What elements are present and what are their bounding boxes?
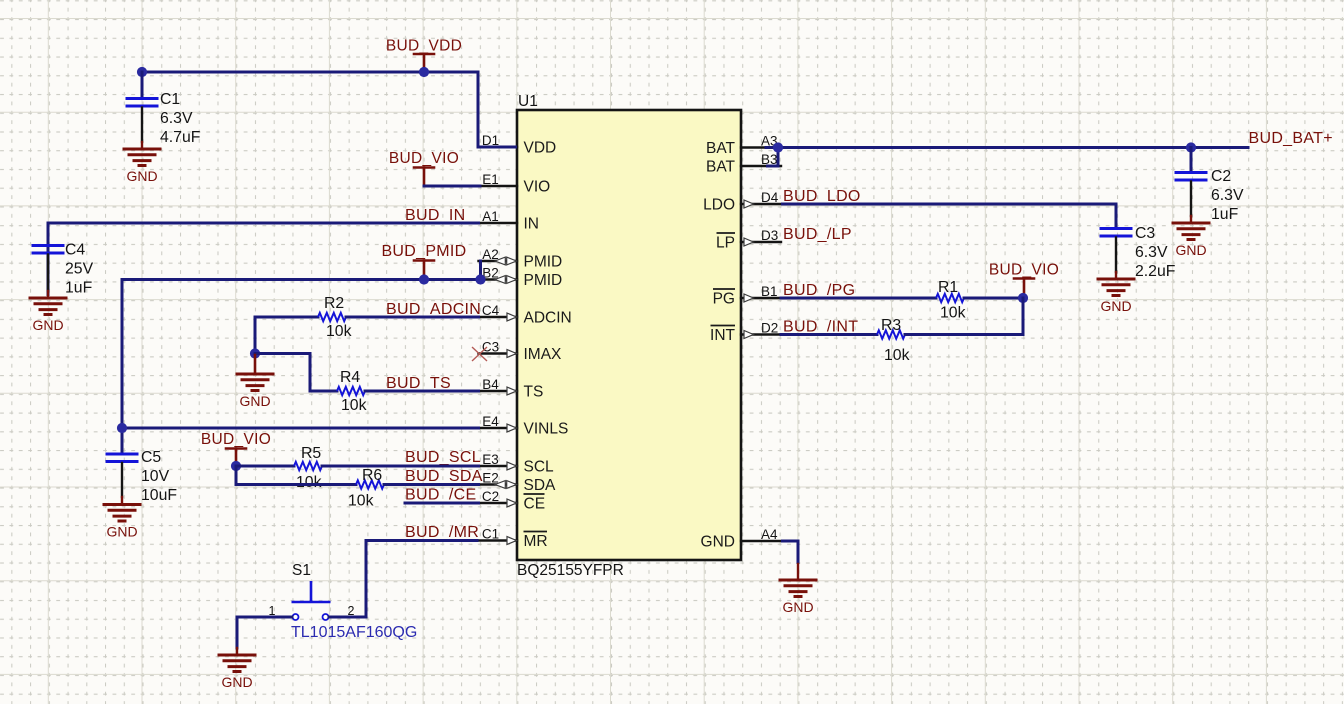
svg-text:E3: E3 bbox=[482, 452, 499, 467]
svg-text:GND: GND bbox=[126, 168, 157, 184]
wire ADCIN left bbox=[255, 316, 318, 319]
pin SCL E3 stub bbox=[479, 465, 518, 467]
pin name PMID bbox=[524, 254, 563, 271]
capacitor C5 labels bbox=[141, 449, 177, 504]
pin name ADCIN bbox=[524, 310, 572, 327]
wire GND pin to ground bbox=[781, 541, 798, 564]
wire SDA right bbox=[384, 483, 479, 486]
capacitor C1 bbox=[127, 99, 157, 107]
junction BUD_VDD bbox=[419, 67, 429, 77]
wire BUD_VIO mid stem bbox=[235, 449, 238, 466]
svg-text:BQ25155YFPR: BQ25155YFPR bbox=[517, 562, 624, 579]
svg-text:TL1015AF160QG: TL1015AF160QG bbox=[291, 624, 417, 641]
svg-text:10k: 10k bbox=[348, 493, 374, 510]
resistor R1 labels bbox=[938, 279, 966, 322]
input pin arrow at y=391 bbox=[507, 387, 517, 395]
junction BUD_VIO/R5 bbox=[231, 461, 241, 471]
pin name PMID bbox=[524, 272, 563, 289]
pin name TS bbox=[524, 384, 544, 401]
wire BAT B3 jog bbox=[766, 148, 778, 167]
pin PMID B2 stub bbox=[479, 278, 518, 280]
pin name VINLS bbox=[524, 421, 569, 438]
svg-text:R6: R6 bbox=[362, 467, 382, 484]
pin LP D3 stub bbox=[741, 241, 781, 243]
svg-text:IMAX: IMAX bbox=[524, 346, 563, 363]
wire down to INT bbox=[1022, 298, 1025, 335]
pin TS B4 stub bbox=[479, 390, 518, 392]
wire BUD_VIO right stem bbox=[1023, 279, 1026, 297]
wire down to SDA bbox=[235, 466, 238, 485]
svg-text:C2: C2 bbox=[482, 489, 499, 504]
svg-text:C4: C4 bbox=[65, 242, 85, 259]
capacitor C4 labels bbox=[65, 242, 94, 297]
svg-text:4.7uF: 4.7uF bbox=[160, 129, 201, 146]
pin VIO E1 stub bbox=[479, 185, 518, 187]
svg-text:R3: R3 bbox=[881, 317, 901, 334]
svg-text:VIO: VIO bbox=[524, 179, 551, 196]
bidirectional pin arrow at y=279.5 bbox=[495, 276, 517, 284]
pin name IMAX bbox=[524, 346, 563, 363]
svg-text:CE: CE bbox=[524, 496, 546, 513]
svg-text:U1: U1 bbox=[518, 93, 538, 110]
resistor R6 labels bbox=[348, 467, 382, 510]
resistor R2 labels bbox=[324, 295, 352, 340]
wire S1 to ground bbox=[236, 617, 239, 648]
svg-text:BUD_VIO: BUD_VIO bbox=[389, 150, 459, 167]
svg-text:PMID: PMID bbox=[524, 272, 563, 289]
wire ADCIN corner down bbox=[254, 317, 257, 354]
svg-text:BUD_VIO: BUD_VIO bbox=[989, 262, 1059, 279]
svg-text:C3: C3 bbox=[1135, 225, 1155, 242]
svg-text:SDA: SDA bbox=[524, 477, 557, 494]
pin VDD D1 stub bbox=[479, 146, 518, 148]
svg-text:R2: R2 bbox=[324, 295, 344, 312]
ground below C3 bbox=[1098, 279, 1134, 314]
svg-text:GND: GND bbox=[32, 317, 63, 333]
pin name GND bbox=[701, 534, 735, 551]
wire TS left bbox=[310, 390, 337, 393]
svg-text:ADCIN: ADCIN bbox=[524, 310, 572, 327]
resistor R5 bbox=[294, 462, 322, 470]
no-connect X on IMAX bbox=[472, 347, 487, 361]
capacitor C5 bbox=[107, 454, 137, 462]
wire PG left bbox=[781, 297, 936, 300]
input pin arrow at y=428 bbox=[507, 424, 517, 432]
svg-text:10V: 10V bbox=[141, 468, 170, 485]
pin PG B1 stub bbox=[741, 297, 781, 299]
svg-text:C3: C3 bbox=[482, 340, 499, 355]
svg-text:GND: GND bbox=[782, 599, 813, 615]
svg-text:6.3V: 6.3V bbox=[1211, 187, 1244, 204]
pin BAT A3 stub bbox=[741, 146, 781, 148]
power port BUD_VIO right bbox=[989, 262, 1059, 279]
junction R2/R4/GND bbox=[250, 348, 260, 358]
junction R1/BUD_VIO bbox=[1018, 293, 1028, 303]
wire SCL left bbox=[236, 465, 294, 468]
capacitor C1 labels bbox=[160, 91, 201, 146]
svg-text:S1: S1 bbox=[292, 562, 311, 579]
pin ADCIN C4 stub bbox=[479, 316, 518, 318]
resistor R3 labels bbox=[881, 317, 910, 364]
wire across to R4 branch bbox=[255, 352, 310, 355]
svg-text:6.3V: 6.3V bbox=[160, 110, 193, 127]
svg-text:6.3V: 6.3V bbox=[1135, 244, 1168, 261]
svg-text:E4: E4 bbox=[482, 414, 499, 429]
wire VIO net bbox=[424, 185, 480, 188]
svg-text:BAT: BAT bbox=[706, 159, 736, 176]
ground below C2 bbox=[1173, 223, 1209, 258]
svg-text:GND: GND bbox=[1100, 298, 1131, 314]
bidirectional pin arrow at y=261 bbox=[495, 257, 517, 265]
junction PMID A2/B2 bbox=[475, 274, 485, 284]
pin name BAT bbox=[706, 159, 736, 176]
svg-text:D4: D4 bbox=[761, 190, 779, 205]
pin name SDA bbox=[524, 477, 557, 494]
wire C5 bottom bbox=[121, 463, 123, 497]
svg-text:BUD_ADCIN: BUD_ADCIN bbox=[386, 301, 481, 318]
svg-text:10uF: 10uF bbox=[141, 487, 177, 504]
svg-text:C1: C1 bbox=[482, 527, 499, 542]
svg-text:BUD_/MR: BUD_/MR bbox=[405, 524, 479, 541]
ground below C5 bbox=[104, 505, 140, 540]
svg-text:25V: 25V bbox=[65, 261, 94, 278]
output pin arrow at y=298 bbox=[744, 294, 754, 302]
svg-text:BUD_/CE: BUD_/CE bbox=[405, 487, 476, 504]
resistor R3 bbox=[877, 330, 905, 338]
svg-text:C5: C5 bbox=[141, 449, 161, 466]
svg-text:C2: C2 bbox=[1211, 168, 1231, 185]
power port BUD_PMID bar bbox=[414, 259, 434, 262]
output pin arrow at y=242 bbox=[744, 238, 754, 246]
svg-text:GND: GND bbox=[106, 524, 137, 540]
resistor R2 bbox=[318, 313, 346, 321]
pin BAT B3 stub bbox=[741, 165, 781, 167]
svg-text:10k: 10k bbox=[296, 474, 322, 491]
svg-text:GND: GND bbox=[1175, 242, 1206, 258]
wire INT left bbox=[781, 333, 877, 336]
capacitor C4 bbox=[33, 246, 63, 254]
wire PMID to C5 trunk bbox=[121, 280, 124, 453]
svg-text:2.2uF: 2.2uF bbox=[1135, 263, 1176, 280]
svg-text:D2: D2 bbox=[761, 321, 778, 336]
wire S1 pin2 bbox=[329, 616, 366, 619]
wire GND maroon stem bbox=[797, 564, 799, 579]
wire S1 pin1 bbox=[237, 616, 292, 619]
input pin arrow at y=466 bbox=[507, 462, 517, 470]
wire PMID A2 jog bbox=[479, 261, 482, 280]
pin name MR bbox=[524, 532, 548, 551]
pin MR C1 stub bbox=[479, 539, 518, 541]
svg-text:GND: GND bbox=[239, 393, 270, 409]
power port BUD_VIO middle bbox=[201, 431, 271, 449]
wire SDA left bbox=[236, 483, 356, 486]
wire SCL right bbox=[322, 465, 479, 468]
svg-text:IN: IN bbox=[524, 216, 540, 233]
pin LDO D4 stub bbox=[741, 203, 781, 205]
wire INT right bbox=[905, 333, 1023, 336]
wire BUD_PMID stem bbox=[423, 261, 426, 279]
svg-text:BUD_/INT: BUD_/INT bbox=[783, 319, 858, 336]
junction C1 top bbox=[137, 67, 147, 77]
svg-text:BUD_PMID: BUD_PMID bbox=[381, 243, 466, 260]
ground below IC bbox=[780, 580, 816, 615]
wire C4 bottom bbox=[47, 255, 49, 292]
svg-text:VDD: VDD bbox=[524, 140, 557, 157]
svg-text:1uF: 1uF bbox=[65, 280, 93, 297]
resistor R6 bbox=[356, 480, 384, 488]
wire C1 bottom bbox=[141, 108, 143, 143]
pin name LP bbox=[716, 233, 735, 252]
wire R4 branch down bbox=[309, 354, 312, 392]
pin IMAX C3 stub bbox=[479, 352, 518, 354]
pin name VIO bbox=[524, 179, 551, 196]
switch S1 symbol bbox=[292, 581, 331, 620]
svg-text:R5: R5 bbox=[301, 445, 321, 462]
pin CE C2 stub bbox=[479, 502, 518, 504]
capacitor C2 bbox=[1176, 173, 1206, 181]
svg-text:PG: PG bbox=[713, 291, 735, 308]
svg-text:R1: R1 bbox=[938, 279, 958, 296]
svg-text:BUD_SDA: BUD_SDA bbox=[405, 468, 483, 485]
ground below S1 bbox=[219, 655, 255, 690]
svg-text:BUD_VDD: BUD_VDD bbox=[386, 38, 462, 55]
svg-text:10k: 10k bbox=[884, 347, 910, 364]
svg-text:BUD_BAT+: BUD_BAT+ bbox=[1249, 130, 1333, 147]
svg-text:BAT: BAT bbox=[706, 140, 736, 157]
IC U1 BQ25155YFPR body bbox=[517, 110, 741, 560]
pin VINLS E4 stub bbox=[479, 427, 518, 429]
resistor R4 bbox=[337, 387, 365, 395]
svg-text:A4: A4 bbox=[761, 527, 778, 542]
capacitor C2 labels bbox=[1211, 168, 1244, 223]
resistor R5 labels bbox=[296, 445, 322, 491]
capacitor C3 bbox=[1101, 229, 1131, 237]
wire ADCIN right bbox=[346, 316, 479, 319]
ground below C4 bbox=[30, 298, 66, 333]
wire LDO net bbox=[781, 204, 1116, 227]
pin name PG bbox=[713, 289, 735, 308]
input pin arrow at y=503 bbox=[507, 499, 517, 507]
svg-text:VINLS: VINLS bbox=[524, 421, 569, 438]
wire C2 top bbox=[1190, 148, 1193, 172]
pin name VDD bbox=[524, 140, 557, 157]
pin name CE bbox=[524, 494, 546, 513]
svg-text:BUD_/PG: BUD_/PG bbox=[783, 282, 855, 299]
svg-text:BUD_TS: BUD_TS bbox=[386, 375, 451, 392]
bidirectional pin arrow at y=484.5 bbox=[495, 481, 517, 489]
junction BUD_PMID bbox=[419, 274, 429, 284]
wire C3 bottom bbox=[1115, 238, 1117, 273]
capacitor C3 labels bbox=[1135, 225, 1176, 280]
wire C2 bottom bbox=[1190, 182, 1192, 217]
svg-text:GND: GND bbox=[221, 674, 252, 690]
svg-text:E2: E2 bbox=[482, 471, 499, 486]
pin SDA E2 stub bbox=[479, 483, 518, 485]
wire C1 top bbox=[141, 72, 144, 97]
svg-text:TS: TS bbox=[524, 384, 544, 401]
wire BUD_VIO stem bbox=[423, 168, 426, 187]
svg-text:E1: E1 bbox=[482, 172, 499, 187]
svg-text:INT: INT bbox=[710, 327, 736, 344]
pin IN A1 stub bbox=[479, 222, 518, 224]
pin name SCL bbox=[524, 459, 555, 476]
wire VINLS bbox=[122, 427, 479, 430]
wire PG right bbox=[964, 297, 1023, 300]
pin name IN bbox=[524, 216, 540, 233]
power port BUD_VIO left bbox=[389, 150, 459, 168]
svg-text:A2: A2 bbox=[482, 247, 499, 262]
ground R2/R4 bbox=[237, 374, 273, 409]
svg-text:A1: A1 bbox=[482, 209, 499, 224]
svg-text:LP: LP bbox=[716, 235, 735, 252]
wire BUD_VDD trunk bbox=[142, 72, 517, 147]
wire PMID B2 net bbox=[122, 278, 479, 281]
svg-text:LDO: LDO bbox=[703, 197, 735, 214]
wire BUD_VDD stem bbox=[423, 54, 426, 70]
svg-text:BUD_IN: BUD_IN bbox=[405, 207, 465, 224]
resistor R1 bbox=[936, 294, 964, 302]
svg-text:PMID: PMID bbox=[524, 254, 563, 271]
svg-text:1uF: 1uF bbox=[1211, 206, 1239, 223]
svg-text:BUD_VIO: BUD_VIO bbox=[201, 431, 271, 448]
output pin arrow at y=204 bbox=[744, 200, 754, 208]
svg-text:C1: C1 bbox=[160, 91, 180, 108]
output pin arrow at y=334.5 bbox=[744, 331, 754, 339]
wire BAT A3 net bbox=[766, 146, 1248, 149]
wire C4 top segment bbox=[47, 223, 50, 244]
wire BUD_IN bbox=[48, 223, 480, 296]
svg-text:B4: B4 bbox=[482, 377, 499, 392]
junction C2 bbox=[1186, 142, 1196, 152]
svg-text:BUD_LDO: BUD_LDO bbox=[783, 188, 861, 205]
pin PMID A2 stub bbox=[479, 260, 518, 262]
pin name BAT bbox=[706, 140, 736, 157]
power port BUD_VDD bbox=[386, 38, 462, 55]
svg-text:R4: R4 bbox=[340, 369, 360, 386]
wire CE bbox=[405, 502, 479, 505]
pin GND A4 stub bbox=[741, 540, 781, 542]
wire MR bbox=[366, 541, 479, 618]
svg-text:C4: C4 bbox=[482, 303, 500, 318]
junction BAT A3/B3 bbox=[773, 142, 783, 152]
svg-text:BUD_/LP: BUD_/LP bbox=[783, 226, 852, 243]
pin name LDO bbox=[703, 197, 735, 214]
junction VINLS bbox=[117, 423, 127, 433]
svg-text:B1: B1 bbox=[761, 284, 778, 299]
svg-text:10k: 10k bbox=[940, 305, 966, 322]
ground below C1 bbox=[124, 149, 160, 184]
svg-text:SCL: SCL bbox=[524, 459, 555, 476]
input pin arrow at y=540.5 bbox=[507, 537, 517, 545]
pin INT D2 stub bbox=[741, 333, 781, 335]
svg-text:D3: D3 bbox=[761, 228, 778, 243]
pin name INT bbox=[710, 326, 736, 345]
wire TS right bbox=[365, 390, 479, 393]
resistor R4 labels bbox=[340, 369, 367, 414]
svg-text:GND: GND bbox=[701, 534, 735, 551]
input pin arrow at y=317 bbox=[507, 313, 517, 321]
svg-text:BUD_SCL: BUD_SCL bbox=[405, 449, 481, 466]
wire GND stem bbox=[254, 355, 257, 373]
svg-text:MR: MR bbox=[524, 533, 548, 550]
svg-text:10k: 10k bbox=[326, 323, 352, 340]
svg-text:10k: 10k bbox=[341, 397, 367, 414]
input pin arrow at y=353.5 bbox=[507, 350, 517, 358]
